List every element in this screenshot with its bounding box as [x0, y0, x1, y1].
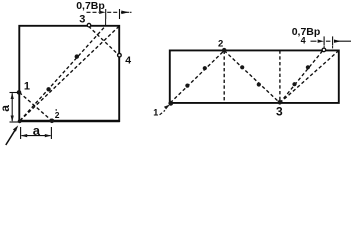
dimension line between ticks (dashed): [107, 11, 118, 13]
speck above label 2 left: [55, 109, 57, 111]
dimension a vertical: tick at node1 level: [10, 92, 19, 94]
corner node blob: [18, 119, 22, 123]
dim line between ticks right: [326, 40, 331, 42]
lamp dots right figure: [185, 84, 189, 88]
svg-text:3: 3: [79, 14, 85, 26]
svg-text:3: 3: [276, 104, 283, 118]
approach arrow to corner: [6, 130, 15, 145]
dimension a horizontal: ext line under corner: [20, 127, 22, 139]
right building outline: [170, 50, 339, 103]
node 4 right: [322, 48, 326, 52]
node 4: [118, 53, 122, 57]
node 1: [17, 90, 22, 95]
dimension 0,7Bp right: leader line: [311, 40, 317, 42]
lamp dot on L2 upper: [75, 54, 79, 58]
dimension a horizontal: ext line under node2: [50, 127, 52, 139]
left building outline: [19, 26, 119, 121]
extension tick1 drop to roof edge: [105, 19, 107, 25]
svg-text:2: 2: [218, 38, 223, 49]
dimension a vertical line: [11, 93, 13, 121]
vertical dashed above node 3: [279, 50, 281, 103]
svg-text:1: 1: [24, 80, 30, 92]
svg-text:2: 2: [55, 110, 60, 120]
arrow up: [11, 93, 14, 99]
arrow right: [45, 134, 52, 137]
node 1 right: [168, 101, 173, 106]
extension tick2 right: [332, 36, 334, 45]
wire zigzag 1-2 (dashed): [170, 51, 224, 103]
extension tick1: [105, 9, 107, 19]
wire segment 1-2 (dashed): [19, 92, 52, 120]
extension tick2: [119, 9, 121, 19]
svg-text:0,7Вр: 0,7Вр: [76, 0, 105, 12]
ext tick2 drop (dashed): [332, 46, 334, 50]
extension tick1 right: [323, 36, 325, 45]
ext tick1 drop to node 4 (dashed): [323, 46, 325, 49]
approach arrow to node 1 right (dashed): [160, 110, 165, 114]
arrow into tick1 right: [318, 40, 324, 43]
vertical dashed under node 2: [223, 51, 225, 103]
left building bottom edge (thicker): [19, 120, 120, 122]
svg-text:0,7Вр: 0,7Вр: [292, 26, 321, 38]
arrow right outside right fig: [334, 40, 341, 43]
arrow left: [21, 134, 28, 137]
dimension a vertical: tick at corner level: [10, 121, 19, 123]
lamp dot on L2 lower: [46, 87, 50, 91]
wire ray L2 corner to top edge tick (dashed): [20, 26, 105, 121]
wire zigzag 2-3 (dashed): [224, 51, 280, 103]
dimension 0,7Bp left: leader dashes: [87, 11, 100, 13]
dimension arrow into tick1: [99, 11, 105, 14]
dimension arrow right outside: [121, 11, 129, 15]
arrow down: [11, 116, 14, 123]
svg-text:1: 1: [153, 107, 158, 117]
node 3: [87, 23, 91, 27]
node 2: [50, 119, 55, 124]
svg-text:a: a: [33, 123, 41, 138]
svg-text:4: 4: [125, 55, 131, 67]
node 2 right: [222, 48, 227, 53]
dimension a horizontal line: [22, 135, 51, 137]
svg-text:a: a: [0, 105, 12, 112]
wire segment 3-4 (dashed): [89, 26, 120, 55]
node 3 right: [278, 100, 283, 105]
wire zigzag 3-4 (dashed): [280, 51, 323, 103]
wire ray 3 to top-right corner (dashed): [280, 51, 339, 103]
wire diagonal L1 corner-to-corner (dashed): [20, 26, 119, 120]
